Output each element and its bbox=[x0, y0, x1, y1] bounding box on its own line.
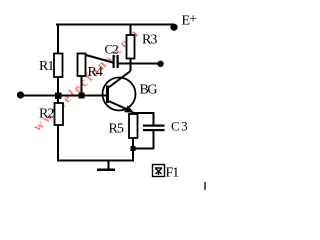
junction dot at R5/C3 bottom link bbox=[131, 146, 136, 151]
svg-text:E+: E+ bbox=[182, 12, 198, 29]
label 图 (figure) glyph drawn bbox=[153, 165, 165, 177]
wire bottom rail bbox=[57, 160, 134, 162]
transistor BG emitter arrowhead bbox=[124, 105, 134, 113]
svg-text:R3: R3 bbox=[142, 33, 157, 48]
junction dot at node A (R1/R2/base wire) bbox=[55, 93, 62, 100]
wire C3 bottom lead bbox=[153, 131, 155, 149]
resistor R5 bbox=[129, 114, 138, 138]
wire C2 right plate to collector node bbox=[118, 63, 131, 65]
capacitor C2 plates bbox=[113, 55, 119, 68]
wire R1 to junction A bbox=[57, 77, 59, 103]
small tick mark bottom right bbox=[204, 182, 206, 190]
wire R4 bottom lead to base wire bbox=[81, 76, 83, 96]
output terminal dot bbox=[157, 61, 163, 67]
transistor BG circle bbox=[103, 78, 136, 111]
svg-text:F1: F1 bbox=[166, 166, 180, 181]
svg-text:R1: R1 bbox=[39, 59, 54, 74]
wire R4 top diagonal to C2 bbox=[84, 55, 113, 63]
resistor R4 bbox=[78, 54, 86, 77]
wire left vertical from top rail to R1 bbox=[57, 24, 59, 54]
wire bottom link between R5 and C3 bottoms bbox=[132, 148, 154, 150]
wire collector node to output terminal bbox=[131, 63, 161, 65]
watermark www.elecfans.com bbox=[30, 24, 143, 134]
wire base horizontal from input terminal to transistor base bbox=[20, 95, 107, 97]
resistor R3 bbox=[127, 35, 135, 59]
transistor BG base bar bbox=[106, 86, 109, 104]
resistor R1 bbox=[54, 54, 63, 78]
wire R2 bottom to bottom rail bbox=[57, 125, 59, 162]
svg-text:R5: R5 bbox=[109, 122, 124, 137]
wire R5 bottom lead bbox=[132, 138, 134, 149]
svg-text:C2: C2 bbox=[105, 42, 119, 57]
wire R3 bottom lead bbox=[130, 59, 132, 65]
wire C3 top lead bbox=[153, 112, 155, 125]
svg-text:R4: R4 bbox=[88, 65, 103, 80]
ground symbol bbox=[97, 161, 115, 170]
capacitor C3 plates bbox=[143, 125, 165, 132]
wire junction down to bottom rail bbox=[132, 149, 134, 162]
wire top rail bbox=[56, 24, 174, 26]
wire collector stub bbox=[130, 64, 132, 72]
wire R3 top lead bbox=[130, 25, 132, 36]
transistor BG emitter lead bbox=[109, 101, 132, 111]
svg-text:BG: BG bbox=[140, 83, 158, 98]
transistor BG collector lead bbox=[109, 71, 131, 88]
wire emitter junction to C3 top bbox=[133, 112, 154, 114]
input terminal dot bbox=[17, 91, 24, 98]
resistor R2 bbox=[55, 103, 64, 125]
junction dot at R4 bottom bbox=[79, 93, 85, 99]
E+ supply terminal dot bbox=[170, 24, 177, 31]
wire R5 top lead bbox=[132, 112, 134, 115]
svg-text:C3: C3 bbox=[171, 119, 189, 134]
svg-text:R2: R2 bbox=[39, 107, 54, 122]
